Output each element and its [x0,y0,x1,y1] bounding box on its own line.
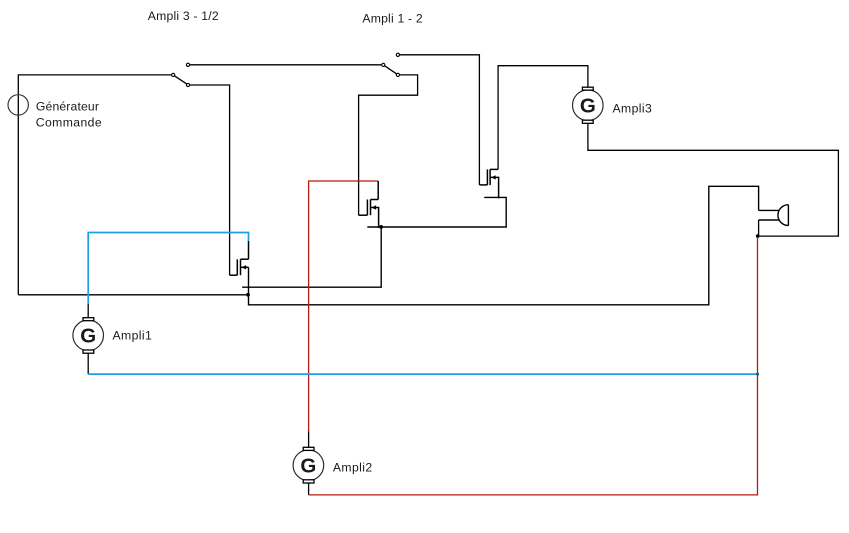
svg-text:G: G [580,94,596,117]
svg-text:Ampli3: Ampli3 [613,101,653,115]
wire Ampli2 top pin [308,431,310,447]
switch S2 throw 2 contact [396,73,399,76]
generator G1 Ampli1 [73,318,104,354]
node B junction dot (generator return) [246,293,250,297]
wire red Ampli2 bottom to speaker junction [309,237,758,495]
switch S2 blade [385,66,397,74]
transistor Q3 arrow [242,265,247,269]
node C junction dot (speaker bottom) [756,234,760,238]
wire Q3 source to speaker top [249,186,759,304]
speaker LS1 [759,205,789,226]
switch S1 blade [175,76,187,84]
wire generator top to switch S1 pole [18,75,171,295]
wire Ampli1 top pin [87,304,89,318]
wire S2 throw2 to Q2 gate [359,75,418,215]
generator G2 Ampli2 [293,447,324,483]
transistor Q3 MOSFET [230,241,249,275]
wire generator bottom return [18,294,246,296]
switch S1 throw 2 contact [186,83,189,86]
wire cyan Q3 drain to Ampli1 top [88,233,248,305]
node A junction dot [379,225,383,229]
svg-text:Ampli 3 - 1/2: Ampli 3 - 1/2 [148,9,219,23]
svg-text:Ampli 1 - 2: Ampli 1 - 2 [362,11,422,25]
svg-text:G: G [300,454,316,477]
transistor Q2 arrow [372,205,377,209]
transistor Q1 arrow [491,175,496,179]
generator V1 circle [8,95,28,115]
node D cyan-red meeting dot [756,373,759,376]
switch S1 throw 1 contact [186,63,189,66]
wire Ampli1 bottom pin [87,353,89,374]
wire S1 throw1 to S2 pole [190,64,382,66]
wire Ampli2 bottom pin [308,483,310,495]
switch S2 pole contact [382,63,385,66]
wire cyan Ampli1 bottom run [88,373,757,375]
generator G3 Ampli3 [573,87,604,123]
wire red Q2 drain to Ampli2 top [309,181,379,431]
transistor Q2 MOSFET [359,181,379,228]
wire speaker bottom lead [758,220,760,236]
wire Q1 drain to Ampli3 top [498,66,588,170]
svg-text:Ampli1: Ampli1 [113,328,153,342]
wire S1 throw2 to Q3 gate [190,85,230,275]
wire S2 throw1 to Q1 gate [400,55,480,185]
switch S1 pole contact [172,73,175,76]
transistor Q1 MOSFET [479,169,498,198]
wire Ampli3 bottom to speaker junction [588,123,839,236]
svg-text:Commande: Commande [36,115,102,129]
wire node A down to Q3 source bar [242,227,381,287]
svg-text:Générateur: Générateur [36,100,99,114]
wire Q1 source bar to node A [367,197,506,227]
svg-text:Ampli2: Ampli2 [333,460,373,474]
switch S2 throw 1 contact [396,53,399,56]
svg-text:G: G [80,325,96,348]
